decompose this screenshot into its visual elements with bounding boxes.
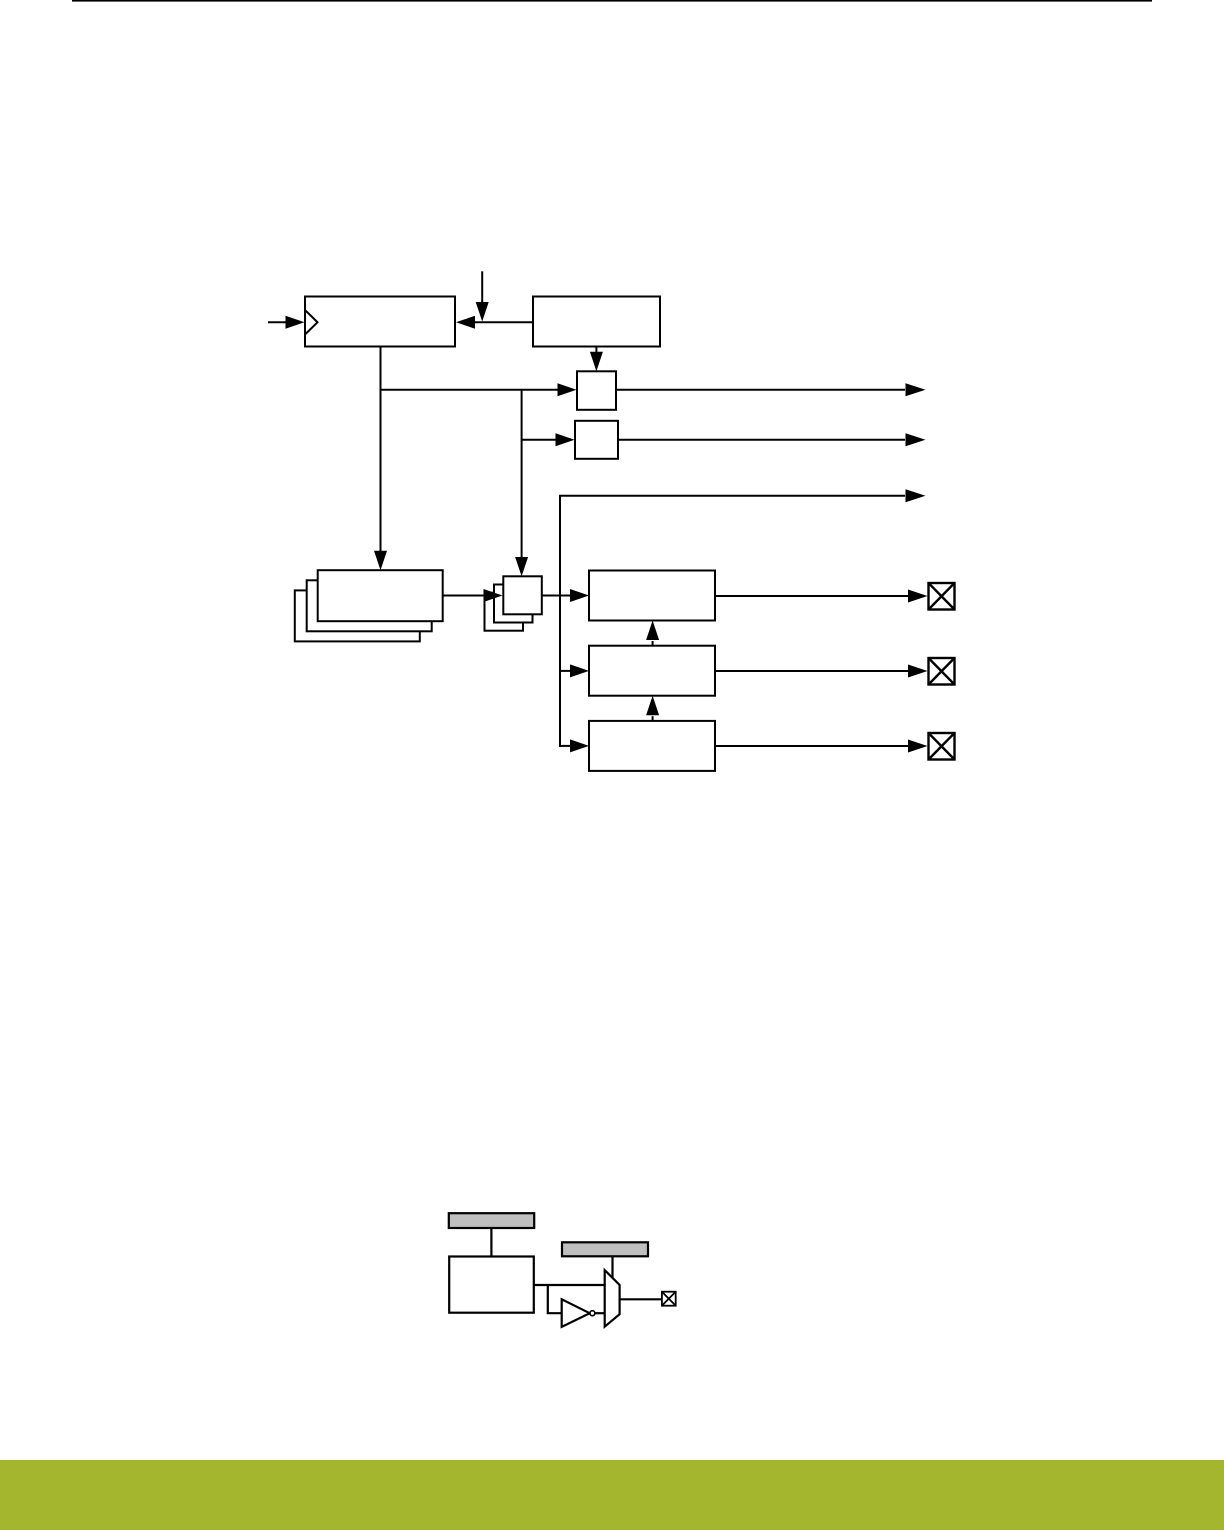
wire branch down at node N1	[521, 390, 523, 558]
wire C3 to C2	[652, 716, 654, 721]
wire U2 to U1	[474, 321, 533, 323]
register file page 3	[295, 590, 420, 641]
arrowhead into C1	[570, 589, 589, 602]
wire bus to latch A	[381, 389, 559, 391]
arrowhead C3 to C2	[646, 696, 659, 716]
arrowhead C2 to C1	[646, 621, 659, 641]
arrowhead into C2	[570, 664, 589, 677]
latch A	[577, 371, 616, 410]
wire latch B output	[618, 439, 905, 441]
wire branch to inverter	[548, 1285, 562, 1313]
control block U2	[533, 297, 660, 347]
arrowhead clock input	[286, 316, 305, 329]
pin symbol X4	[662, 1292, 676, 1306]
arrowhead into stacked register file	[374, 551, 387, 570]
wire compare latch to comparator 1	[542, 595, 571, 597]
comparator block C2	[589, 646, 715, 696]
arrowhead into latch B left	[556, 433, 575, 446]
compare latch page 3	[485, 593, 524, 631]
inverter bubble	[590, 1311, 595, 1316]
wire latch A output	[616, 389, 905, 391]
arrowhead into pin 1	[908, 590, 928, 603]
pin symbol X3	[929, 733, 955, 760]
clock chevron on U1	[305, 310, 318, 335]
wire clock input	[268, 321, 287, 323]
wire mux to pin	[620, 1298, 662, 1300]
arrowhead into C3	[570, 739, 589, 752]
register block U1 (timer/counter)	[305, 297, 455, 347]
wire Q output	[534, 1284, 605, 1286]
register file page 2	[307, 580, 432, 631]
arrowhead top control down	[476, 302, 489, 322]
wire branch to comparator 3	[560, 745, 571, 747]
wire U2 to latch A	[595, 347, 597, 354]
arrowhead into compare latch left	[484, 589, 503, 602]
wire third output	[560, 496, 905, 747]
arrowhead latch A output end	[906, 383, 926, 396]
arrowhead into pin 2	[908, 665, 928, 678]
mux M1	[605, 1270, 620, 1327]
wire L2 to mux select	[611, 1256, 613, 1279]
comparator block C1	[589, 571, 715, 621]
arrowhead third output end	[906, 489, 926, 502]
wire register file to compare latch	[443, 595, 485, 597]
arrowhead into pin 3	[908, 740, 928, 753]
bus label plate L1	[449, 1213, 534, 1228]
latch B	[575, 421, 618, 459]
bus label plate L2	[562, 1242, 648, 1256]
wire U1 bottom bus	[380, 347, 382, 552]
pin symbol X1	[929, 583, 955, 610]
arrowhead into stacked compare latch	[515, 557, 528, 576]
comparator block C3	[589, 721, 715, 771]
header rule	[72, 0, 1152, 2]
arrowhead latch B output end	[906, 433, 926, 446]
wire C2 to C1	[652, 641, 654, 646]
wire branch to latch B	[522, 439, 557, 441]
wire branch to comparator 2	[560, 670, 571, 672]
wire bubble to mux	[595, 1312, 605, 1314]
arrowhead into latch A top	[590, 352, 603, 372]
wire vertical feed	[559, 496, 561, 746]
inverter G1	[562, 1299, 590, 1327]
wire C2 to pin 2	[715, 670, 909, 672]
register file page 1	[318, 570, 443, 621]
arrowhead into latch A left	[558, 383, 577, 396]
wire top control input	[481, 271, 483, 303]
compare latch page 2	[494, 585, 533, 623]
wire C1 to pin 1	[715, 595, 909, 597]
wire C3 to pin 3	[715, 745, 909, 747]
wire L1 to register Q	[490, 1228, 492, 1256]
register block Q	[449, 1257, 534, 1313]
footer band	[0, 1460, 1224, 1530]
pin symbol X2	[929, 658, 955, 685]
arrowhead into U1 right	[456, 316, 475, 329]
compare latch page 1	[503, 576, 542, 614]
